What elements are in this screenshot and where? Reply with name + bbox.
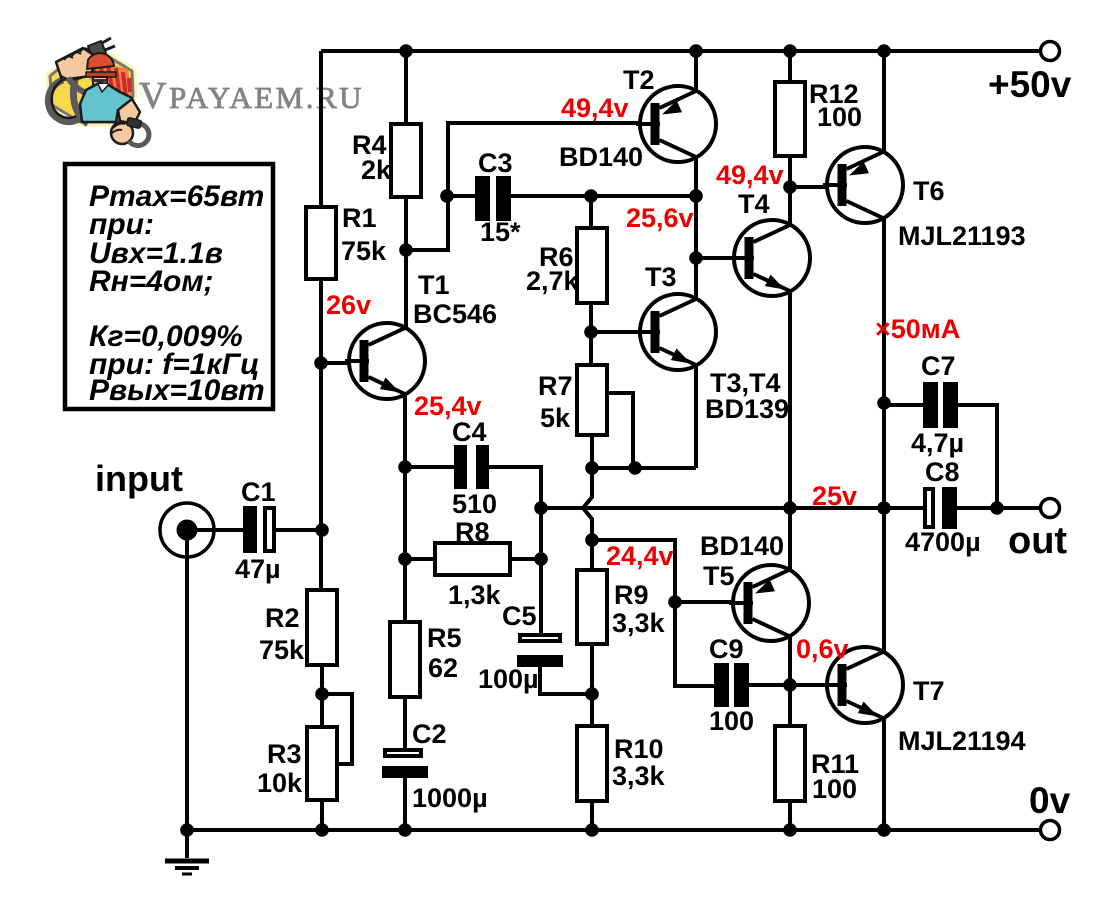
svg-text:100: 100 [812, 774, 857, 804]
svg-text:C2: C2 [412, 719, 447, 749]
svg-text:T2: T2 [623, 65, 655, 95]
svg-text:25v: 25v [812, 481, 857, 511]
svg-text:R1: R1 [342, 203, 377, 233]
svg-text:R2: R2 [265, 603, 300, 633]
svg-text:R8: R8 [455, 517, 490, 547]
svg-text:input: input [95, 458, 183, 499]
svg-text:3,3k: 3,3k [612, 608, 666, 638]
svg-text:T4: T4 [738, 189, 770, 219]
svg-text:C7: C7 [921, 351, 956, 381]
svg-text:C8: C8 [925, 457, 960, 487]
svg-text:T3: T3 [645, 262, 677, 292]
svg-text:510: 510 [452, 489, 497, 519]
svg-text:Rн=4ом;: Rн=4ом; [89, 265, 214, 298]
svg-text:R5: R5 [427, 623, 462, 653]
svg-text:2k: 2k [361, 155, 392, 185]
svg-text:100µ: 100µ [478, 664, 539, 694]
svg-text:R9: R9 [614, 580, 649, 610]
svg-text:C4: C4 [452, 417, 487, 447]
svg-text:+50v: +50v [988, 64, 1072, 105]
svg-text:MJL21194: MJL21194 [898, 726, 1026, 756]
svg-text:1000µ: 1000µ [412, 783, 488, 813]
svg-text:100: 100 [709, 706, 754, 736]
svg-text:15*: 15* [480, 217, 521, 247]
svg-text:10k: 10k [257, 768, 303, 798]
svg-text:T5: T5 [703, 561, 735, 591]
svg-text:2,7k: 2,7k [526, 266, 580, 296]
svg-text:0v: 0v [1029, 780, 1071, 821]
svg-text:T6: T6 [913, 176, 945, 206]
svg-text:25,6v: 25,6v [626, 203, 694, 233]
svg-text:47µ: 47µ [235, 554, 281, 584]
svg-text:Рвых=10вт: Рвых=10вт [89, 374, 265, 407]
svg-text:C5: C5 [502, 601, 537, 631]
svg-text:BC546: BC546 [413, 299, 497, 329]
svg-text:C1: C1 [241, 477, 276, 507]
svg-text:×50мА: ×50мА [875, 314, 960, 344]
svg-text:T1: T1 [418, 270, 450, 300]
svg-text:24,4v: 24,4v [606, 541, 674, 571]
svg-text:C9: C9 [709, 634, 744, 664]
svg-text:4,7µ: 4,7µ [911, 428, 964, 458]
svg-text:R7: R7 [538, 371, 573, 401]
svg-text:75k: 75k [341, 236, 387, 266]
svg-text:BD139: BD139 [705, 394, 789, 424]
svg-text:49,4v: 49,4v [561, 93, 629, 123]
svg-text:5k: 5k [540, 403, 571, 433]
svg-text:26v: 26v [326, 290, 371, 320]
svg-text:1,3k: 1,3k [448, 580, 502, 610]
svg-text:0,6v: 0,6v [796, 634, 849, 664]
svg-text:VPAYAEM.RU: VPAYAEM.RU [139, 75, 364, 117]
svg-text:MJL21193: MJL21193 [898, 221, 1026, 251]
svg-text:C3: C3 [478, 148, 513, 178]
svg-text:62: 62 [428, 653, 458, 683]
svg-text:out: out [1008, 520, 1067, 562]
svg-text:R10: R10 [614, 734, 664, 764]
svg-text:3,3k: 3,3k [612, 761, 666, 791]
svg-text:75k: 75k [259, 635, 305, 665]
svg-text:49,4v: 49,4v [716, 160, 784, 190]
svg-text:100: 100 [817, 102, 862, 132]
svg-text:T7: T7 [913, 676, 945, 706]
svg-text:4700µ: 4700µ [905, 527, 981, 557]
svg-text:BD140: BD140 [559, 142, 643, 172]
svg-text:R3: R3 [267, 739, 302, 769]
svg-text:BD140: BD140 [700, 531, 784, 561]
